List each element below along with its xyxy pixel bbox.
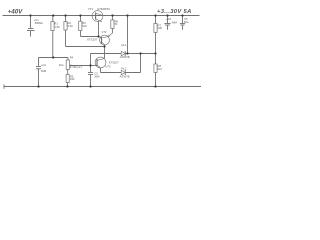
LED HL1 <box>121 51 125 56</box>
junction dot W1/W2 T <box>139 52 141 54</box>
svg-text:5,6К: 5,6К <box>68 24 74 28</box>
transistor VT2 <box>100 35 110 45</box>
W2 corner up <box>140 54 142 73</box>
svg-text:VT2: VT2 <box>101 30 107 34</box>
svg-text:4,7К(лог): 4,7К(лог) <box>70 65 82 69</box>
bottom rail <box>4 86 202 88</box>
top rail +40V <box>3 15 200 17</box>
svg-text:40М: 40М <box>41 69 47 73</box>
junction dot VT3 base node <box>89 64 91 66</box>
emitter wire W2 <box>101 72 141 74</box>
capacitor C3 <box>90 66 92 87</box>
junction dot R7/rail <box>154 14 156 16</box>
VT1 base drop <box>98 21 100 36</box>
capacitor C2 <box>38 58 40 87</box>
wire R2 to collector node <box>66 46 105 48</box>
svg-text:+3...30V 5A: +3...30V 5A <box>157 9 192 15</box>
resistor R8 <box>155 54 157 87</box>
svg-text:КТ3107: КТ3107 <box>109 60 119 64</box>
junction dot LED drop/rail <box>126 14 128 16</box>
junction dot C2/bottom rail <box>37 85 39 87</box>
svg-text:+С2: +С2 <box>41 63 47 67</box>
potentiometer R4 wiper arrow <box>70 65 91 67</box>
svg-text:1,5К: 1,5К <box>54 25 60 29</box>
junction dot R3/rail <box>79 14 81 16</box>
svg-text:50н: 50н <box>184 20 189 24</box>
resistor R2 <box>65 16 67 47</box>
resistor R1 <box>52 16 54 58</box>
terminal tick bottom-left <box>3 84 5 88</box>
resistor R3 <box>80 16 82 37</box>
junction dot W1/LED drop <box>126 52 128 54</box>
svg-text:10М: 10М <box>94 74 100 78</box>
resistor R6 <box>111 16 113 34</box>
feedback wire W1 <box>91 53 156 55</box>
svg-text:КТ819ГМ: КТ819ГМ <box>97 7 110 11</box>
svg-text:HL2: HL2 <box>121 67 126 71</box>
junction dot C5/rail <box>181 14 183 16</box>
junction dot base node <box>97 35 99 37</box>
svg-text:+40V: +40V <box>8 8 23 15</box>
W1 corner down to VT3 base node <box>90 54 92 66</box>
svg-text:330: 330 <box>70 77 75 81</box>
svg-text:АЛ307Б: АЛ307Б <box>120 75 130 79</box>
resistor R7 <box>155 16 157 54</box>
svg-text:51: 51 <box>115 22 118 26</box>
transistor VT1 <box>92 11 103 22</box>
potentiometer R4 <box>67 58 69 61</box>
svg-text:910: 910 <box>158 67 163 71</box>
capacitor C4 <box>167 16 169 30</box>
svg-text:40М: 40М <box>172 20 178 24</box>
junction dot divider tap <box>154 52 156 54</box>
junction dot R1/rail <box>52 14 54 16</box>
svg-text:510: 510 <box>82 24 87 28</box>
junction dot R5/bottom rail <box>66 85 68 87</box>
junction dot R2/rail <box>64 14 66 16</box>
junction dot R1/W3 <box>52 56 54 58</box>
transistor VT3 <box>95 57 106 68</box>
LED chain drop from rail <box>127 16 129 54</box>
VT3 base wire <box>91 65 98 67</box>
wire W3 C2 branch <box>39 57 69 59</box>
svg-text:VT1: VT1 <box>88 7 94 11</box>
svg-text:100: 100 <box>158 26 163 30</box>
junction dot C4/rail <box>166 14 168 16</box>
junction dot collector node <box>103 45 105 47</box>
LED HL2 <box>121 70 125 75</box>
svg-text:500Мк: 500Мк <box>35 21 44 25</box>
wire R3 to base node <box>81 36 99 38</box>
junction dot R6/rail <box>111 14 113 16</box>
svg-text:40н: 40н <box>59 63 64 67</box>
svg-text:АЛ307Б: АЛ307Б <box>120 55 130 59</box>
svg-text:КТ3107: КТ3107 <box>87 37 97 41</box>
svg-text:R4: R4 <box>70 56 74 60</box>
junction dot C1/rail <box>29 14 31 16</box>
junction dot R8/bottom rail <box>154 85 156 87</box>
capacitor C5 <box>182 16 184 30</box>
junction dot C3/bottom rail <box>89 85 91 87</box>
VT2 emitter slant to R6 <box>108 33 112 37</box>
svg-text:HL1: HL1 <box>121 43 126 47</box>
resistor R5 <box>67 70 69 87</box>
svg-text:VT3: VT3 <box>105 65 111 69</box>
capacitor C1 <box>30 16 32 29</box>
VT3 collector lead <box>104 47 106 59</box>
